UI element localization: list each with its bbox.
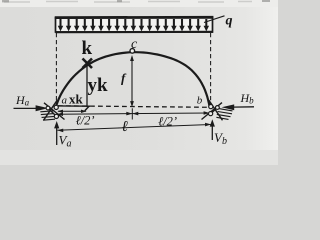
small hook tick at foot of yk ordinate (85, 106, 89, 111)
l/2 + l/2 dimension line (57, 111, 210, 116)
reaction Hb arrow (222, 104, 254, 110)
support b: ground hatching (216, 109, 232, 120)
reaction Va arrow (upward) (54, 121, 59, 145)
dashed projection line left (from load to support a) (55, 33, 57, 103)
distributed load q: bar outline (56, 18, 213, 33)
svg-text:ℓ/2’: ℓ/2’ (76, 114, 95, 128)
dashed projection line right (from load to support b) (210, 33, 212, 104)
distributed load q: bottom chord (56, 31, 214, 34)
solid chord segment under xk label (a to k) (58, 105, 90, 107)
leader line to q label (204, 16, 225, 23)
support a: ground hatching (40, 111, 55, 120)
svg-text:ℓ: ℓ (122, 119, 128, 135)
support a: legs and pins (44, 100, 65, 120)
support b: legs and pins (202, 100, 223, 120)
reaction Vb arrow (upward) (210, 119, 215, 140)
centre tick below chord (131, 108, 133, 119)
xk dimension line (a to k ordinate) (57, 110, 86, 113)
faint cut-off text smudges along top edge (4, 1, 252, 4)
svg-text:xk: xk (69, 92, 84, 107)
cross mark at point k on arch (83, 59, 93, 69)
rise f dimension line with both arrowheads (130, 55, 134, 107)
svg-text:k: k (82, 38, 93, 59)
overall span l dimension line (57, 123, 211, 132)
svg-text:ℓ/2’: ℓ/2’ (158, 114, 177, 128)
distributed load q: thick top chord (55, 16, 214, 19)
svg-text:c: c (131, 37, 138, 52)
ordinate line yk from k down to chord (86, 66, 88, 108)
reaction Ha arrow (14, 105, 49, 111)
svg-text:yk: yk (88, 75, 109, 96)
chord line a-b (dashed) (58, 106, 210, 108)
crown hinge c (small circle) (130, 49, 135, 54)
distributed load q: arrows (58, 19, 209, 31)
svg-text:q: q (226, 14, 233, 29)
arch (three-hinged, circular-arc profile) (56, 52, 209, 106)
svg-text:a: a (62, 95, 68, 107)
svg-text:b: b (197, 95, 203, 107)
